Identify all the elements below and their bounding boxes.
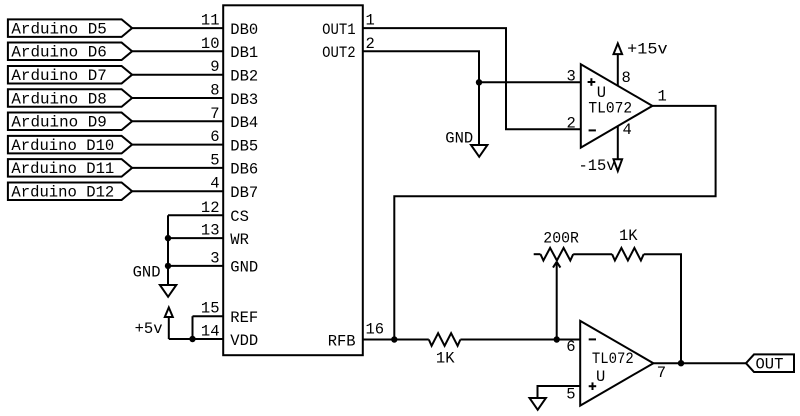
- label 1K (input resistor): [436, 350, 455, 368]
- svg-text:Arduino D7: Arduino D7: [11, 67, 106, 85]
- wire GND pin 3: [168, 265, 223, 267]
- svg-text:1: 1: [658, 88, 667, 106]
- svg-text:2: 2: [566, 114, 575, 132]
- label 200R: [543, 229, 579, 247]
- pin name DB6: [230, 161, 258, 179]
- svg-text:TL072: TL072: [592, 350, 634, 368]
- power label -15v: [579, 157, 616, 175]
- pin name DB3: [230, 91, 258, 109]
- net flag Arduino D7: [8, 66, 132, 85]
- svg-text:GND: GND: [230, 259, 258, 277]
- svg-text:Arduino D12: Arduino D12: [11, 184, 114, 202]
- op-amp2 gate label U: [596, 368, 605, 386]
- power +5v arrow: [165, 308, 173, 340]
- wire REF down to VDD rail: [192, 316, 194, 339]
- op-amp1 gate label U: [597, 84, 606, 102]
- op-amp1 - input marker: [589, 129, 596, 131]
- op-amp2 value TL072: [592, 350, 634, 368]
- op-amp2 pin 7: [657, 364, 666, 382]
- junction WR-bus: [165, 235, 171, 241]
- pin number 8 (DB3): [210, 82, 219, 100]
- svg-text:8: 8: [210, 82, 219, 100]
- svg-text:13: 13: [201, 222, 220, 240]
- power label +5v: [135, 320, 163, 338]
- ground symbol (op-amp2 +input): [530, 398, 546, 410]
- pin name VDD: [230, 332, 258, 350]
- op-amp2 pin 6: [566, 338, 575, 356]
- svg-text:200R: 200R: [543, 229, 579, 247]
- svg-text:DB4: DB4: [230, 114, 258, 132]
- power label +15v: [627, 40, 667, 58]
- svg-text:DB7: DB7: [230, 184, 258, 202]
- svg-text:CS: CS: [230, 208, 249, 226]
- svg-text:5: 5: [210, 151, 219, 169]
- svg-text:+15v: +15v: [627, 40, 667, 58]
- svg-text:Arduino D5: Arduino D5: [11, 20, 106, 38]
- net flag OUT: [746, 354, 794, 373]
- wire WR pin 13: [168, 237, 223, 239]
- net flag Arduino D6: [8, 43, 132, 62]
- svg-text:4: 4: [210, 175, 219, 193]
- wire 1K to op-amp2 pin 6: [460, 339, 580, 341]
- pin number 9 (DB2): [210, 58, 219, 76]
- op-amp2 pin 5: [566, 386, 575, 404]
- svg-text:TL072: TL072: [588, 99, 632, 117]
- pin name DB4: [230, 114, 258, 132]
- svg-text:-15v: -15v: [579, 157, 616, 175]
- wire OUT2 to ground: [478, 82, 480, 145]
- svg-text:3: 3: [566, 67, 575, 85]
- svg-text:6: 6: [566, 338, 575, 356]
- resistor 1K (input): [429, 333, 461, 346]
- junction OUT2/GND: [476, 79, 482, 85]
- op-amp2 + input marker: [589, 382, 597, 390]
- svg-text:Arduino D11: Arduino D11: [11, 160, 114, 178]
- net flag Arduino D12: [8, 182, 132, 201]
- pin number 14 (VDD): [201, 323, 220, 341]
- svg-text:16: 16: [366, 321, 385, 339]
- net label GND (left): [133, 264, 161, 282]
- svg-text:OUT2: OUT2: [322, 44, 356, 62]
- svg-text:+5v: +5v: [135, 320, 163, 338]
- op-amp1 pin 2: [566, 114, 575, 132]
- svg-text:8: 8: [622, 69, 631, 87]
- svg-text:11: 11: [201, 12, 220, 30]
- wire Arduino D12 to DB7: [132, 190, 223, 192]
- svg-text:VDD: VDD: [230, 332, 258, 350]
- pin number 10 (DB1): [201, 35, 220, 53]
- pin number 1 (OUT1): [366, 12, 375, 30]
- svg-text:DB1: DB1: [230, 44, 258, 62]
- op-amp1 pin 4: [623, 121, 632, 139]
- net flag Arduino D8: [8, 89, 132, 108]
- svg-text:Arduino D9: Arduino D9: [11, 114, 106, 132]
- pin number 16 (RFB): [366, 321, 385, 339]
- svg-text:Arduino D6: Arduino D6: [11, 44, 106, 62]
- wire Arduino D9 to DB4: [132, 120, 223, 122]
- wire 1K to output: [644, 254, 681, 363]
- svg-text:12: 12: [201, 199, 220, 217]
- pin number 5 (DB6): [210, 151, 219, 169]
- wire REF pin 15: [193, 315, 224, 317]
- pin name DB0: [230, 21, 258, 39]
- pin number 12 (CS): [201, 199, 220, 217]
- wire Arduino D7 to DB2: [132, 74, 223, 76]
- svg-text:DB0: DB0: [230, 21, 258, 39]
- trimmer 200R: [534, 248, 574, 261]
- ground symbol (left bus): [160, 285, 176, 297]
- svg-text:Arduino D8: Arduino D8: [11, 90, 106, 108]
- IC DAC 16-pin body: [223, 5, 363, 355]
- net flag Arduino D9: [8, 113, 132, 132]
- svg-text:OUT1: OUT1: [322, 21, 356, 39]
- svg-text:GND: GND: [133, 264, 161, 282]
- wire ground bus vertical: [167, 215, 169, 285]
- svg-text:9: 9: [210, 58, 219, 76]
- op-amp1 pin 8: [622, 69, 631, 87]
- wire Arduino D8 to DB3: [132, 97, 223, 99]
- power +15v arrow: [614, 43, 623, 85]
- op-amp1 pin 3: [566, 67, 575, 85]
- op-amp1 value TL072: [588, 99, 632, 117]
- svg-text:DB3: DB3: [230, 91, 258, 109]
- op-amp U TL072 (top) body: [581, 64, 653, 147]
- svg-text:REF: REF: [230, 309, 258, 327]
- wire CS pin 12: [168, 214, 223, 216]
- ground symbol (op-amp1 +input): [471, 145, 487, 157]
- svg-text:15: 15: [201, 300, 220, 318]
- net label GND (op-amp1): [445, 130, 473, 148]
- svg-text:OUT: OUT: [756, 356, 784, 374]
- junction feedback/RFB: [391, 336, 397, 342]
- net flag Arduino D5: [8, 19, 132, 38]
- svg-text:Arduino D10: Arduino D10: [11, 137, 114, 155]
- junction GND-bus: [165, 263, 171, 269]
- svg-text:7: 7: [657, 364, 666, 382]
- op-amp2 - input marker: [589, 338, 596, 340]
- svg-text:14: 14: [201, 323, 220, 341]
- svg-text:RFB: RFB: [328, 332, 356, 350]
- svg-text:1K: 1K: [436, 350, 455, 368]
- svg-text:DB2: DB2: [230, 68, 258, 86]
- svg-text:DB6: DB6: [230, 161, 258, 179]
- wire Arduino D5 to DB0: [132, 27, 223, 29]
- wire VDD pin 14: [169, 338, 223, 340]
- pin name WR: [230, 231, 249, 249]
- pin name GND: [230, 259, 258, 277]
- junction trimmer tap: [554, 336, 560, 342]
- pin number 4 (DB7): [210, 175, 219, 193]
- svg-text:GND: GND: [445, 130, 473, 148]
- wire op-amp2 pin 5: [538, 386, 581, 398]
- svg-text:U: U: [596, 368, 605, 386]
- wire Arduino D10 to DB5: [132, 144, 223, 146]
- svg-text:1K: 1K: [619, 227, 638, 245]
- pin name DB2: [230, 68, 258, 86]
- pin name CS: [230, 208, 249, 226]
- op-amp U TL072 (bottom) body: [580, 321, 653, 406]
- wire RFB pin 16: [363, 339, 429, 341]
- pin name DB5: [230, 137, 258, 155]
- power -15v arrow: [614, 126, 623, 171]
- net flag Arduino D10: [8, 136, 132, 155]
- pin name RFB: [328, 332, 356, 350]
- wire OUT2 to op-amp pin 3: [363, 51, 581, 82]
- wire op-amp2 output: [653, 362, 746, 364]
- svg-text:DB5: DB5: [230, 137, 258, 155]
- pin number 6 (DB5): [210, 128, 219, 146]
- pin name REF: [230, 309, 258, 327]
- pin number 13 (WR): [201, 222, 220, 240]
- svg-text:6: 6: [210, 128, 219, 146]
- svg-text:4: 4: [623, 121, 632, 139]
- wire op-amp1 output feedback: [394, 106, 715, 340]
- label 1K (feedback resistor): [619, 227, 638, 245]
- svg-text:7: 7: [210, 105, 219, 123]
- svg-text:3: 3: [210, 249, 219, 267]
- pin name OUT1: [322, 21, 356, 39]
- svg-text:2: 2: [366, 35, 375, 53]
- pin name OUT2: [322, 44, 356, 62]
- junction REF/VDD: [189, 336, 195, 342]
- pin number 3 (GND): [210, 249, 219, 267]
- svg-text:WR: WR: [230, 231, 249, 249]
- svg-text:10: 10: [201, 35, 220, 53]
- wire Arduino D11 to DB6: [132, 167, 223, 169]
- pin number 15 (REF): [201, 300, 220, 318]
- wire 200R to 1K: [573, 253, 612, 255]
- wire Arduino D6 to DB1: [132, 50, 223, 52]
- wire trimmer wiper: [556, 262, 558, 340]
- op-amp1 + input marker: [588, 78, 596, 86]
- net flag Arduino D11: [8, 159, 132, 178]
- pin number 7 (DB4): [210, 105, 219, 123]
- resistor 1K (feedback): [612, 248, 644, 261]
- pin name DB1: [230, 44, 258, 62]
- op-amp1 pin 1: [658, 88, 667, 106]
- wire OUT1 to op-amp pin 2: [363, 28, 581, 129]
- junction feedback/output: [678, 360, 684, 366]
- trimmer wiper arrowhead: [553, 262, 560, 268]
- pin number 2 (OUT2): [366, 35, 375, 53]
- svg-text:1: 1: [366, 12, 375, 30]
- pin number 11 (DB0): [201, 12, 220, 30]
- pin name DB7: [230, 184, 258, 202]
- svg-text:5: 5: [566, 386, 575, 404]
